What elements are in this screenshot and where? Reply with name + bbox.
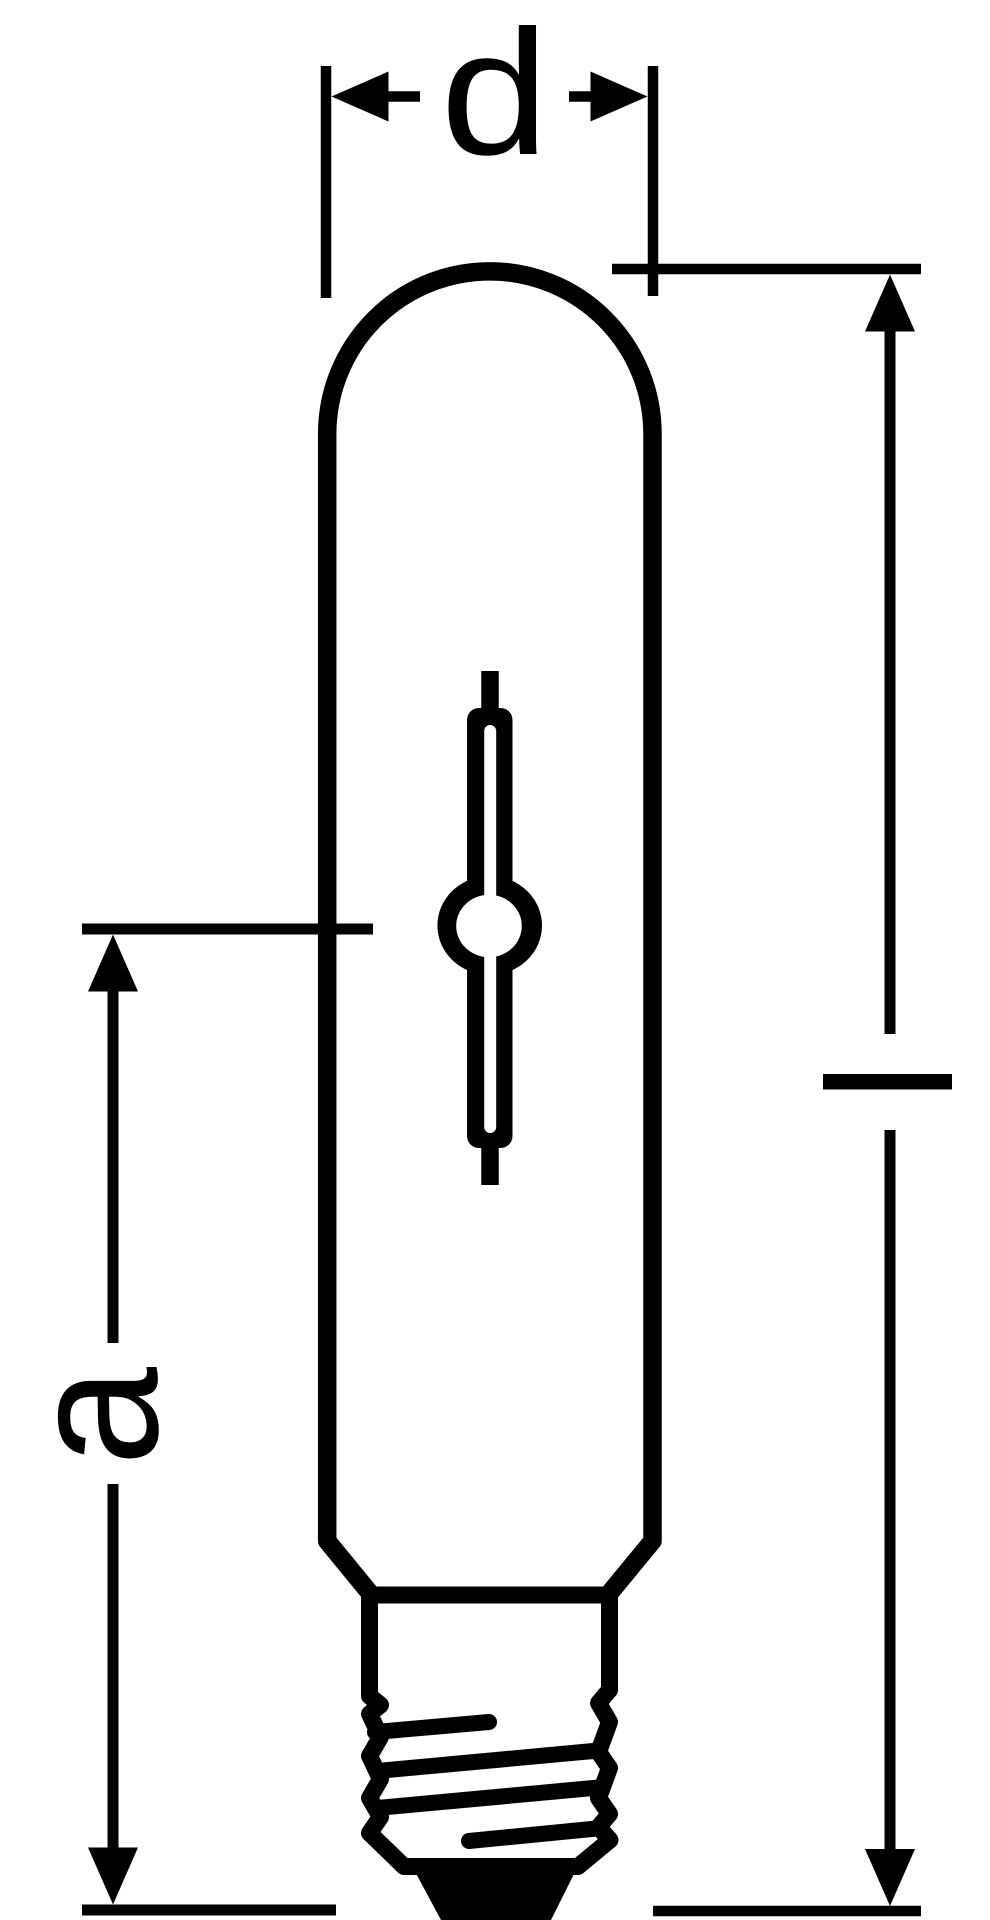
- svg-text:d: d: [440, 0, 549, 192]
- svg-text:a: a: [0, 1367, 197, 1466]
